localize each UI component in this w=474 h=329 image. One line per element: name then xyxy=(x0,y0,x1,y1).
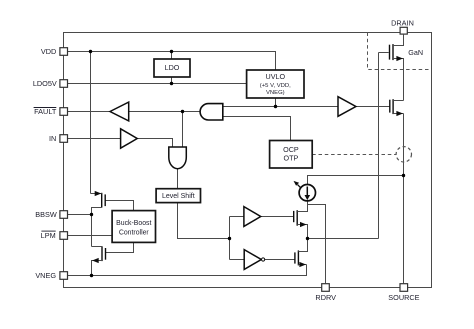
junction dot source net xyxy=(402,174,405,177)
svg-text:VNEG): VNEG) xyxy=(266,90,285,96)
wire to lower driver input xyxy=(230,259,245,261)
pin LPM xyxy=(60,232,68,240)
dashed sense node circle xyxy=(396,147,411,162)
wire VDD feed into LDO top xyxy=(171,52,173,60)
wire high-side buck FET gate to controller xyxy=(105,201,134,211)
junction dot VNEG rail xyxy=(90,274,93,277)
wire lower driver to pull-down FET gate xyxy=(265,259,296,261)
svg-text:FAULT: FAULT xyxy=(34,107,57,116)
svg-text:LPM: LPM xyxy=(41,231,56,240)
wire UVLO output node to AND gate top input and gate buffer xyxy=(223,106,338,108)
svg-text:DRAIN: DRAIN xyxy=(391,18,414,27)
wire UVLO box bottom to node xyxy=(275,98,277,107)
Buck-Boost Controller block xyxy=(112,211,155,243)
svg-text:Controller: Controller xyxy=(119,230,150,237)
wire current source node to RDRV pin xyxy=(308,205,326,284)
dashed GaN die box xyxy=(368,33,432,70)
wire low-side buck FET gate to controller xyxy=(105,242,133,252)
wire VDD branch down to buck-boost high-side FET xyxy=(90,52,92,194)
small AND gate (down facing) xyxy=(169,147,187,169)
svg-text:UVLO: UVLO xyxy=(266,72,286,81)
svg-text:LDO: LDO xyxy=(165,63,180,72)
wire LPM pin to Buck-Boost Controller xyxy=(68,235,113,237)
label FAULT (overlined) xyxy=(34,107,57,116)
pull-up output FET Q3 xyxy=(294,205,308,239)
pin SOURCE xyxy=(400,284,408,292)
svg-text:LDO5V: LDO5V xyxy=(33,79,57,88)
junction dot UVLO output node xyxy=(274,105,277,108)
junction dot driver input split xyxy=(228,237,231,240)
GaN transistor xyxy=(379,35,404,101)
svg-text:IN: IN xyxy=(49,134,56,143)
wire gate buffer output to cascode FET gate xyxy=(356,106,390,108)
junction dot BBSW switch node xyxy=(90,213,93,216)
junction dot LDO/LDO5V xyxy=(170,82,173,85)
wire OCP dashed control line xyxy=(312,154,396,156)
gate buffer U2 before cascode FET xyxy=(338,97,356,117)
svg-text:BBSW: BBSW xyxy=(35,210,57,219)
wire FAULT pin to inverter output xyxy=(68,111,111,113)
pull-down output FET Q4 xyxy=(295,239,308,268)
wire current source bottom to node xyxy=(307,201,309,205)
wire GaN gate bus down to driver mid node xyxy=(378,53,380,239)
IC boundary box xyxy=(64,33,432,288)
wire AND gate bottom input to OCP OTP box xyxy=(223,117,291,141)
adjustable current source I1 xyxy=(294,181,316,201)
pin IN xyxy=(60,135,68,143)
lower driver bubble xyxy=(262,258,265,261)
svg-text:RDRV: RDRV xyxy=(315,293,336,302)
wire BBSW pin to switch node xyxy=(68,214,93,216)
pin LDO5V xyxy=(60,80,68,88)
svg-text:OTP: OTP xyxy=(284,154,299,163)
svg-text:Buck-Boost: Buck-Boost xyxy=(116,220,151,227)
svg-text:VNEG: VNEG xyxy=(35,271,56,280)
wire VNEG rail xyxy=(68,265,307,276)
wire IN pin to input buffer xyxy=(68,138,121,140)
buck-boost high-side FET Q5 (mirrored) xyxy=(91,191,106,215)
pin FAULT xyxy=(60,108,68,116)
svg-text:(+5 V, VDD,: (+5 V, VDD, xyxy=(260,83,291,89)
input buffer on IN xyxy=(121,129,138,148)
wire small AND output to Level Shift xyxy=(177,169,179,189)
wire switch node down to low-side buck FET xyxy=(91,215,93,247)
OCP OTP block xyxy=(270,141,313,169)
wire input buffer output to small AND gate left input xyxy=(137,139,173,148)
wire cascode source down to SOURCE pin xyxy=(403,114,405,284)
AND gate (left facing) feeding fault inverter xyxy=(200,104,223,120)
wire AND gate output to inverter input xyxy=(129,111,201,113)
junction dot VDD/LDO xyxy=(170,50,173,53)
wire tap down to small AND gate right input xyxy=(182,112,184,148)
junction dot driver mid node xyxy=(306,237,309,240)
lower gate driver inverter xyxy=(244,250,261,270)
pin DRAIN xyxy=(400,27,407,34)
wire to upper driver input xyxy=(230,216,244,218)
wire driver input split xyxy=(229,217,231,260)
upper gate driver buffer xyxy=(244,207,261,227)
wire driver mid node to GaN gate bus xyxy=(307,238,379,240)
junction dot fault line tap xyxy=(181,110,184,113)
svg-text:VDD: VDD xyxy=(41,47,56,56)
wire VDD rail xyxy=(68,52,276,71)
buck-boost low-side FET Q6 (mirrored) xyxy=(92,246,106,275)
svg-text:GaN: GaN xyxy=(408,48,423,57)
label LPM (overlined) xyxy=(41,231,56,240)
inverter driving FAULT pin xyxy=(110,102,129,121)
wire Level Shift output to driver inputs xyxy=(178,203,230,239)
LDO block xyxy=(154,59,190,77)
wire current source top to SOURCE net xyxy=(308,176,404,185)
pin BBSW xyxy=(60,211,68,219)
Level Shift block xyxy=(156,189,200,203)
pin RDRV xyxy=(322,284,330,292)
wire upper driver to pull-up FET gate xyxy=(261,216,294,218)
svg-text:SOURCE: SOURCE xyxy=(388,293,419,302)
junction dot VDD/buck branch xyxy=(89,50,92,53)
wire LDO output to LDO5V rail xyxy=(171,77,173,84)
wire LDO5V rail xyxy=(68,83,248,85)
pin VDD xyxy=(60,48,68,56)
cascode LV FET Q2 xyxy=(390,99,404,116)
pin VNEG xyxy=(60,272,68,280)
svg-text:Level Shift: Level Shift xyxy=(162,193,195,200)
UVLO block U3 xyxy=(247,70,304,98)
